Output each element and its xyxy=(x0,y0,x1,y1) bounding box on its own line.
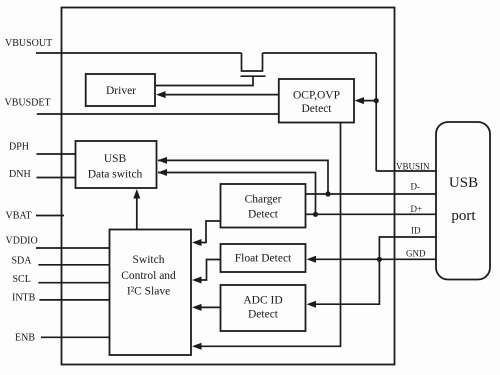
svg-text:Detect: Detect xyxy=(248,309,279,321)
block Charger Detect xyxy=(221,184,306,228)
block USB Data switch xyxy=(76,141,157,188)
wire VBUSIN horizontal to USB port xyxy=(376,170,436,172)
block OCP OVP Detect xyxy=(279,79,354,123)
main IC block outline xyxy=(62,8,395,365)
svg-text:ID: ID xyxy=(411,226,421,236)
block ADC ID Detect xyxy=(221,285,306,331)
arrowhead into float detect xyxy=(307,256,317,263)
svg-text:port: port xyxy=(451,208,476,224)
wire ADC ID detect to switch control xyxy=(195,306,221,308)
svg-text:OCP,OVP: OCP,OVP xyxy=(293,90,340,102)
svg-text:D-: D- xyxy=(411,182,421,192)
wire VDDIO pin line xyxy=(36,247,110,249)
svg-text:SDA: SDA xyxy=(12,256,33,267)
svg-text:Float Detect: Float Detect xyxy=(235,253,292,265)
wire SDA pin line xyxy=(38,264,109,266)
junction dot D+ tap xyxy=(313,212,318,217)
arrowhead into switch control from ADC xyxy=(192,304,202,311)
svg-text:Driver: Driver xyxy=(106,85,136,97)
wire INTB pin line xyxy=(39,299,109,301)
junction dot VBUSIN to OCP xyxy=(374,98,379,103)
wire float detect to switch control xyxy=(195,260,221,281)
arrowhead into switch control from float xyxy=(192,277,202,284)
block Driver xyxy=(86,74,155,106)
arrowhead into switch control from OCP xyxy=(192,343,202,350)
wire VBUSOUT pin line xyxy=(36,52,242,54)
svg-text:VDDIO: VDDIO xyxy=(6,236,38,247)
svg-text:ADC ID: ADC ID xyxy=(243,295,282,307)
arrowhead into ADC ID detect xyxy=(307,301,317,308)
svg-text:Charger: Charger xyxy=(245,194,282,206)
svg-text:VBUSOUT: VBUSOUT xyxy=(5,38,52,49)
block Float Detect xyxy=(221,244,306,272)
block USB port connector xyxy=(436,122,490,280)
svg-text:VBUSIN: VBUSIN xyxy=(396,162,430,172)
arrowhead into data switch D+ xyxy=(158,169,168,176)
wire VBUS to right vertical xyxy=(263,52,377,54)
svg-text:DNH: DNH xyxy=(9,169,31,180)
wire OCP to driver xyxy=(159,94,279,96)
wire ENB pin line xyxy=(41,336,110,338)
svg-text:USB: USB xyxy=(104,153,127,165)
svg-text:VBAT: VBAT xyxy=(6,211,32,222)
wire gate stub to driver output xyxy=(155,76,253,85)
arrowhead up into data switch bottom xyxy=(133,189,140,199)
wire GND line to float detect xyxy=(309,258,436,260)
wire data switch tap to D+ xyxy=(158,173,316,215)
wire D+ line charger to USB port xyxy=(306,213,437,215)
wire DNH pin line xyxy=(37,177,76,179)
wire VBUSIN vertical xyxy=(375,53,377,171)
svg-text:I²C Slave: I²C Slave xyxy=(127,286,170,298)
transistor Q1 gate bar xyxy=(241,75,266,77)
wire switch control up to data switch xyxy=(136,192,138,230)
wire OCP arrow feed from VBUSIN xyxy=(358,100,376,102)
svg-text:Detect: Detect xyxy=(248,209,279,221)
svg-text:VBUSDET: VBUSDET xyxy=(5,98,51,109)
arrowhead into OCP right edge xyxy=(355,97,365,104)
arrowhead into switch control from charger xyxy=(192,239,202,246)
wire ID line to ADC ID detect xyxy=(309,237,436,304)
junction dot D- tap xyxy=(325,191,330,196)
transistor Q1 pass-FET channel dip xyxy=(242,53,263,71)
wire charger detect to switch control xyxy=(195,221,221,243)
wire data switch tap to D- xyxy=(158,160,328,194)
wire DPH pin line xyxy=(37,153,76,155)
svg-text:INTB: INTB xyxy=(12,293,36,304)
svg-text:Switch: Switch xyxy=(133,254,165,266)
svg-text:Control and: Control and xyxy=(121,270,176,282)
wire VBAT pin line xyxy=(36,215,64,217)
svg-text:USB: USB xyxy=(449,175,478,191)
block Switch Control and I2C Slave xyxy=(110,230,192,356)
svg-text:DPH: DPH xyxy=(9,142,29,153)
arrowhead into data switch D- xyxy=(158,157,168,164)
arrowhead into Driver right edge xyxy=(156,91,166,98)
svg-text:Data switch: Data switch xyxy=(88,169,143,181)
svg-text:GND: GND xyxy=(406,249,426,259)
wire VBUSDET pin line xyxy=(37,113,279,115)
wire D- line charger to USB port xyxy=(306,193,437,195)
svg-text:ENB: ENB xyxy=(15,333,35,344)
svg-text:SCL: SCL xyxy=(13,274,31,285)
svg-text:D+: D+ xyxy=(411,204,423,214)
wire OCP OVP to switch control xyxy=(195,123,341,347)
wire SCL pin line xyxy=(38,282,109,284)
svg-text:Detect: Detect xyxy=(301,103,332,115)
junction dot GND ID node xyxy=(377,257,382,262)
